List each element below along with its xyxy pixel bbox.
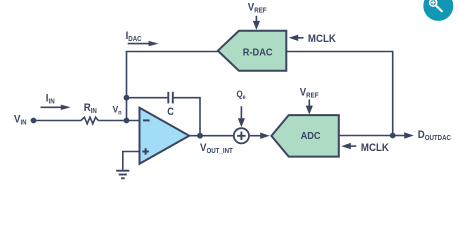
arrowhead into ADC xyxy=(260,133,270,139)
wire ADC output to D_OUTDAC node xyxy=(339,135,393,137)
summing junction xyxy=(234,128,249,143)
wire D_OUTDAC arrow tail xyxy=(393,135,406,137)
arrowhead V_REF into R-DAC xyxy=(253,21,260,30)
svg-text:IDAC: IDAC xyxy=(126,31,142,44)
arrowhead I_DAC xyxy=(149,41,159,46)
wire summing junction to ADC arrow tail xyxy=(250,135,262,137)
arrowhead MCLK into ADC xyxy=(341,143,351,149)
zoom icon top right xyxy=(423,0,453,21)
node V_IN dot xyxy=(31,118,37,124)
svg-text:MCLK: MCLK xyxy=(361,142,389,154)
block ADC xyxy=(271,115,338,157)
wire Q_e arrow tail xyxy=(240,106,242,119)
label I_IN xyxy=(46,93,55,106)
node V_n dot xyxy=(124,118,130,124)
label MCLK top xyxy=(308,33,336,45)
svg-text:MCLK: MCLK xyxy=(308,33,336,45)
label D_OUTDAC xyxy=(418,130,452,143)
svg-text:VREF: VREF xyxy=(300,87,319,100)
arrowhead V_REF into ADC xyxy=(306,106,313,115)
svg-text:Vn: Vn xyxy=(113,104,122,116)
wire op-amp noninverting input to ground xyxy=(123,152,140,170)
wire capacitor right to output node xyxy=(174,98,200,136)
op-amp U1 xyxy=(140,108,190,164)
svg-text:VIN: VIN xyxy=(14,114,27,127)
label V_n xyxy=(113,104,122,116)
wire V_REF arrow tail ADC xyxy=(308,100,310,107)
wire I_DAC arrow tail xyxy=(128,43,150,45)
node capacitor branch dot xyxy=(124,95,130,101)
wire feedback from output node up and left to R-DAC xyxy=(286,52,392,136)
label R_IN xyxy=(84,102,97,115)
arrowhead I_IN xyxy=(61,105,71,110)
wire top from I_DAC corner to R-DAC xyxy=(127,52,219,121)
wire resistor to op-amp inverting input xyxy=(98,120,139,122)
label V_REF ADC xyxy=(300,87,319,100)
label V_REF top xyxy=(248,2,267,15)
resistor R_IN xyxy=(81,117,98,124)
wire I_IN arrow tail xyxy=(41,106,63,108)
wire capacitor branch left xyxy=(127,97,168,99)
label C xyxy=(167,106,174,118)
node V_OUT_INT dot xyxy=(197,133,203,139)
svg-text:C: C xyxy=(167,106,174,118)
node D_OUTDAC dot xyxy=(390,133,396,139)
svg-text:ADC: ADC xyxy=(301,130,321,142)
label Q_e xyxy=(237,89,246,101)
ground xyxy=(116,171,129,179)
label V_IN xyxy=(14,114,27,127)
arrowhead D_OUTDAC xyxy=(404,132,414,138)
wire MCLK top arrow tail xyxy=(297,37,304,39)
wire input V_IN to resistor xyxy=(34,120,82,122)
wire V_REF arrow tail R-DAC xyxy=(255,16,257,22)
arrowhead MCLK into R-DAC xyxy=(289,35,299,41)
label V_OUT_INT xyxy=(200,142,233,155)
svg-text:RIN: RIN xyxy=(84,102,97,115)
capacitor C plates xyxy=(168,92,173,104)
label I_DAC xyxy=(126,31,142,44)
svg-text:VREF: VREF xyxy=(248,2,267,15)
svg-text:R-DAC: R-DAC xyxy=(243,47,273,59)
wire op-amp output to summing junction xyxy=(189,135,233,137)
wire MCLK bottom arrow tail xyxy=(350,145,356,147)
arrowhead Q_e into summing junction xyxy=(238,118,245,127)
svg-text:Qe: Qe xyxy=(237,89,246,101)
svg-text:DOUTDAC: DOUTDAC xyxy=(418,130,452,143)
svg-text:IIN: IIN xyxy=(46,93,55,106)
label MCLK bottom xyxy=(361,142,389,154)
block R-DAC xyxy=(218,31,286,71)
svg-text:VOUT_INT: VOUT_INT xyxy=(200,142,233,155)
